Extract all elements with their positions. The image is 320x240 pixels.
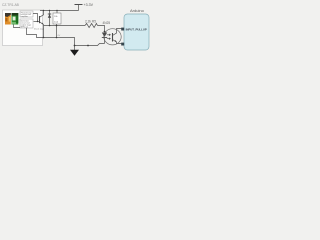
svg-text:INPUT_PULLUP: INPUT_PULLUP [126,28,147,32]
svg-text:Arduino: Arduino [130,8,145,13]
svg-text:amplifier: amplifier [21,15,29,18]
svg-text:NPN out: NPN out [21,25,29,28]
svg-text:2.2k R5: 2.2k R5 [85,19,96,23]
svg-text:black (sig): black (sig) [34,28,44,30]
svg-text:+3.3V: +3.3V [84,3,94,7]
svg-text:CZ.TR1.AB: CZ.TR1.AB [2,3,20,7]
svg-text:4N25: 4N25 [103,21,111,25]
